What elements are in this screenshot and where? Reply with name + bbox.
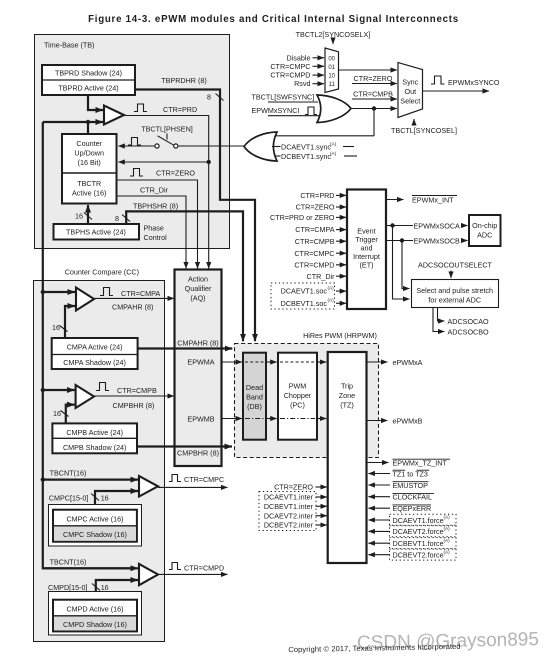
svg-text:CTR_Dir: CTR_Dir (307, 272, 336, 281)
svg-text:Zone: Zone (339, 391, 355, 400)
svg-text:DCBEVT1.sync: DCBEVT1.sync (281, 152, 331, 161)
svg-text:16: 16 (75, 212, 83, 221)
svg-text:Out: Out (405, 87, 417, 96)
svg-text:CTR=CMPC: CTR=CMPC (270, 62, 310, 71)
svg-text:TBPRD Shadow (24): TBPRD Shadow (24) (55, 69, 122, 78)
svg-text:for external ADC: for external ADC (428, 296, 481, 305)
svg-text:Select and pulse stretch: Select and pulse stretch (416, 286, 493, 295)
svg-text:CMPBHR (8): CMPBHR (8) (113, 401, 155, 410)
svg-text:TBCTL[SYNCOSEL]: TBCTL[SYNCOSEL] (391, 126, 457, 135)
svg-text:DCBEVT1.force: DCBEVT1.force (393, 539, 444, 548)
svg-text:CMPD Shadow (16): CMPD Shadow (16) (63, 620, 127, 629)
svg-text:Action: Action (188, 275, 208, 284)
svg-text:(ET): (ET) (360, 261, 374, 270)
svg-text:TBCNT(16): TBCNT(16) (50, 558, 87, 567)
svg-text:Trip: Trip (341, 382, 353, 391)
svg-text:DCAEVT1.soc: DCAEVT1.soc (281, 287, 328, 296)
svg-text:CTR=CMPB: CTR=CMPB (295, 237, 335, 246)
svg-text:TBPHSHR (8): TBPHSHR (8) (133, 202, 178, 211)
svg-text:CMPC[15-0]: CMPC[15-0] (49, 494, 89, 503)
svg-text:TBCTL[PHSEN]: TBCTL[PHSEN] (141, 125, 193, 134)
svg-text:Up/Down: Up/Down (74, 149, 104, 158)
svg-text:DCAEVT2.inter: DCAEVT2.inter (264, 511, 314, 520)
svg-text:DCAEVT1.inter: DCAEVT1.inter (264, 493, 314, 502)
svg-text:CTR=PRD: CTR=PRD (163, 105, 197, 114)
svg-text:(PC): (PC) (290, 401, 305, 410)
svg-text:Copyright © 2017, Texas Instru: Copyright © 2017, Texas Instruments Inco… (288, 642, 461, 654)
svg-text:TBCTR: TBCTR (77, 179, 101, 188)
svg-text:DCAEVT1.force: DCAEVT1.force (393, 516, 444, 525)
svg-text:Counter Compare (CC): Counter Compare (CC) (65, 268, 139, 277)
svg-text:Figure 14-3. ePWM modules and: Figure 14-3. ePWM modules and Critical I… (88, 14, 459, 25)
svg-text:Rsvd: Rsvd (294, 79, 310, 88)
svg-text:ADCSOCBO: ADCSOCBO (448, 328, 490, 337)
svg-text:8: 8 (207, 93, 211, 102)
svg-text:Counter: Counter (76, 139, 102, 148)
svg-text:ADC: ADC (477, 231, 492, 240)
svg-text:Qualifier: Qualifier (185, 284, 212, 293)
svg-text:TBCTL[SWFSYNC]: TBCTL[SWFSYNC] (252, 93, 315, 102)
svg-text:CTR=CMPA: CTR=CMPA (295, 225, 334, 234)
svg-text:DCBEVT1.inter: DCBEVT1.inter (264, 502, 314, 511)
svg-text:On-chip: On-chip (472, 221, 497, 230)
svg-text:EPWMB: EPWMB (187, 414, 214, 423)
svg-text:CMPAHR (8): CMPAHR (8) (112, 303, 153, 312)
svg-text:ePWMxA: ePWMxA (393, 358, 423, 367)
svg-text:ePWMxB: ePWMxB (393, 416, 423, 425)
svg-text:CTR=ZERO: CTR=ZERO (354, 74, 393, 83)
svg-text:CTR=CMPA: CTR=CMPA (121, 289, 160, 298)
svg-text:CMPA Shadow (24): CMPA Shadow (24) (63, 358, 126, 367)
svg-text:11: 11 (329, 82, 336, 88)
svg-text:(A): (A) (330, 142, 337, 147)
svg-text:TZ1 to TZ3: TZ1 to TZ3 (393, 469, 428, 478)
svg-text:PWM: PWM (289, 382, 307, 391)
svg-text:DCBEVT1.soc: DCBEVT1.soc (281, 299, 328, 308)
svg-text:HiRes PWM (HRPWM): HiRes PWM (HRPWM) (303, 331, 377, 340)
svg-text:CTR=CMPD: CTR=CMPD (184, 564, 224, 573)
svg-text:EPWMx_INT: EPWMx_INT (412, 196, 454, 205)
svg-text:TBPHS Active (24): TBPHS Active (24) (66, 228, 126, 237)
svg-text:EPWMxSOCA: EPWMxSOCA (414, 221, 461, 230)
svg-text:(A): (A) (444, 515, 451, 520)
svg-text:Time-Base (TB): Time-Base (TB) (44, 41, 94, 50)
svg-text:DCAEVT1.sync: DCAEVT1.sync (281, 143, 331, 152)
svg-text:CTR=CMPB: CTR=CMPB (117, 386, 157, 395)
svg-text:(A): (A) (444, 538, 451, 543)
svg-text:(AQ): (AQ) (190, 294, 205, 303)
svg-text:CLOCKFAIL: CLOCKFAIL (393, 493, 433, 502)
svg-text:(A): (A) (328, 298, 335, 303)
svg-text:TBCNT(16): TBCNT(16) (50, 469, 87, 478)
svg-text:16: 16 (53, 409, 61, 418)
svg-text:Active (16): Active (16) (72, 189, 106, 198)
svg-text:Select: Select (400, 97, 420, 106)
svg-text:CMPD Active (16): CMPD Active (16) (66, 604, 123, 613)
svg-text:Chopper: Chopper (284, 391, 312, 400)
svg-text:EPWMx_TZ_INT: EPWMx_TZ_INT (393, 458, 448, 467)
svg-text:(16 Bit): (16 Bit) (78, 158, 101, 167)
svg-text:8: 8 (115, 214, 119, 223)
svg-text:DCBEVT2.force: DCBEVT2.force (393, 551, 444, 560)
svg-text:EPWMxSOCB: EPWMxSOCB (414, 236, 461, 245)
svg-text:CMPC Active (16): CMPC Active (16) (66, 514, 123, 523)
svg-text:CTR=PRD or ZERO: CTR=PRD or ZERO (270, 213, 335, 222)
svg-text:TBPRD Active (24): TBPRD Active (24) (58, 84, 118, 93)
svg-text:EMUSTOP: EMUSTOP (393, 481, 429, 490)
svg-text:CMPBHR (8): CMPBHR (8) (177, 449, 219, 458)
svg-text:EPWMA: EPWMA (187, 357, 214, 366)
svg-text:(A): (A) (330, 151, 337, 156)
svg-text:00: 00 (328, 56, 335, 62)
svg-text:Dead: Dead (246, 383, 263, 392)
svg-text:(A): (A) (328, 286, 335, 291)
svg-text:CTR=CMPC: CTR=CMPC (294, 249, 334, 258)
svg-text:EQEPxERR: EQEPxERR (393, 504, 432, 513)
svg-text:CMPA Active (24): CMPA Active (24) (67, 343, 123, 352)
svg-text:CMPAHR (8): CMPAHR (8) (177, 339, 218, 348)
svg-text:Band: Band (246, 393, 263, 402)
svg-text:16: 16 (101, 583, 109, 592)
svg-text:16: 16 (101, 494, 109, 503)
svg-text:Phase: Phase (144, 224, 164, 233)
svg-text:ADCSOCAO: ADCSOCAO (448, 317, 490, 326)
svg-text:EPWMxSYNCI: EPWMxSYNCI (252, 106, 300, 115)
svg-text:DCAEVT2.force: DCAEVT2.force (393, 527, 444, 536)
svg-text:Control: Control (144, 233, 168, 242)
svg-text:DCBEVT2.inter: DCBEVT2.inter (264, 521, 314, 530)
svg-text:01: 01 (328, 65, 335, 71)
svg-text:CMPB Active (24): CMPB Active (24) (66, 428, 123, 437)
svg-text:CMPB Shadow (24): CMPB Shadow (24) (63, 443, 127, 452)
svg-text:CTR=ZERO: CTR=ZERO (156, 169, 195, 178)
svg-text:Sync: Sync (402, 78, 418, 87)
svg-text:CTR=CMPC: CTR=CMPC (184, 475, 224, 484)
svg-text:10: 10 (328, 74, 335, 80)
svg-text:CMPC Shadow (16): CMPC Shadow (16) (63, 530, 127, 539)
svg-text:CTR=ZERO: CTR=ZERO (274, 483, 313, 492)
svg-text:(TZ): (TZ) (340, 401, 354, 410)
svg-text:(A): (A) (444, 549, 451, 554)
svg-text:CMPD[15-0]: CMPD[15-0] (48, 583, 88, 592)
svg-text:CTR=ZERO: CTR=ZERO (296, 203, 335, 212)
svg-text:CTR=CMPB: CTR=CMPB (353, 90, 393, 99)
svg-text:16: 16 (52, 323, 60, 332)
svg-text:EPWMxSYNCO: EPWMxSYNCO (448, 78, 500, 87)
svg-text:TBPRDHR (8): TBPRDHR (8) (161, 76, 207, 85)
svg-text:TBCTL2[SYNCOSELX]: TBCTL2[SYNCOSELX] (296, 30, 371, 39)
svg-text:(DB): (DB) (247, 402, 262, 411)
svg-text:(A): (A) (444, 526, 451, 531)
svg-text:CTR_Dir: CTR_Dir (140, 186, 169, 195)
svg-text:ADCSOCOUTSELECT: ADCSOCOUTSELECT (418, 261, 492, 270)
svg-text:CTR=CMPD: CTR=CMPD (294, 260, 334, 269)
svg-text:CTR=PRD: CTR=PRD (300, 191, 334, 200)
